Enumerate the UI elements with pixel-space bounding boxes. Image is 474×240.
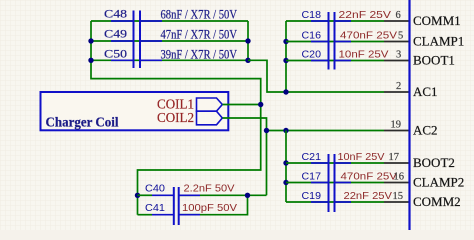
capacitor C50 <box>104 48 237 62</box>
node C40/C41 right junction <box>245 193 250 198</box>
capacitor C17 <box>302 171 398 183</box>
svg-text:C40: C40 <box>145 183 165 195</box>
wire: top bank right rail <box>247 21 249 60</box>
capacitor C41 <box>145 202 237 215</box>
capacitor C40 <box>145 183 235 196</box>
svg-text:100pF 50V: 100pF 50V <box>182 202 237 214</box>
wire: C50 row <box>91 59 248 61</box>
svg-text:2.2nF 50V: 2.2nF 50V <box>184 183 235 195</box>
node junction C49 right <box>245 38 250 43</box>
svg-text:COMM2: COMM2 <box>413 194 461 209</box>
capacitor plates C40/C41 <box>173 187 175 225</box>
svg-text:19: 19 <box>391 120 402 131</box>
svg-text:3: 3 <box>396 50 401 61</box>
pin 15 COMM2 <box>384 191 409 202</box>
wire: C17 row <box>286 182 384 184</box>
svg-text:AC2: AC2 <box>413 123 438 138</box>
svg-text:COIL2: COIL2 <box>157 110 194 125</box>
capacitor C18 <box>302 9 392 21</box>
svg-text:470nF 25V: 470nF 25V <box>340 30 397 42</box>
node junction C16 left <box>283 39 288 44</box>
sheet entry COIL1 <box>157 97 222 112</box>
sheet entry COIL2 <box>157 110 222 125</box>
pin 3 BOOT1 <box>384 50 409 61</box>
wire: C40 row right to AC2 vertical <box>179 194 267 196</box>
node AC2 rail junction <box>283 128 288 133</box>
wire: C21 row <box>286 162 384 164</box>
svg-text:470nF 25V: 470nF 25V <box>341 171 398 183</box>
node junction C50 right <box>245 58 250 63</box>
wire: C16 row <box>286 41 384 43</box>
pin 5 CLAMP1 <box>384 31 409 42</box>
connector U? left edge <box>408 0 410 230</box>
svg-text:C16: C16 <box>302 30 322 42</box>
node AC1 rail junction <box>283 89 288 94</box>
capacitor C48 <box>104 8 237 22</box>
svg-text:16: 16 <box>394 172 405 183</box>
svg-text:47nF / X7R / 50V: 47nF / X7R / 50V <box>161 28 238 42</box>
node junction C21 left <box>283 160 288 165</box>
pin 2 AC1 <box>384 81 409 92</box>
svg-text:C21: C21 <box>302 151 322 163</box>
wire: right bank left rail (AC1) <box>285 21 287 92</box>
capacitor C20 <box>302 49 389 61</box>
capacitor plates C18/C16/C20 <box>328 12 330 70</box>
svg-text:17: 17 <box>389 152 400 163</box>
pin 19 AC2 <box>384 120 409 131</box>
svg-text:CLAMP1: CLAMP1 <box>413 34 464 49</box>
wire: AC1 net jog from C50 row to pin 2 <box>248 60 384 92</box>
svg-text:C48: C48 <box>104 9 127 21</box>
svg-text:10nF 25V: 10nF 25V <box>339 49 389 61</box>
capacitor C21 <box>302 151 385 163</box>
wire: C49 row <box>91 40 248 42</box>
svg-text:C17: C17 <box>302 171 322 183</box>
svg-text:22nF 25V: 22nF 25V <box>339 9 392 21</box>
capacitor plates C21/C17/C19 <box>328 154 330 212</box>
wire: C40 row left <box>138 194 153 196</box>
svg-text:BOOT1: BOOT1 <box>413 53 455 68</box>
node junction C49 left <box>88 38 93 43</box>
svg-text:6: 6 <box>396 10 401 21</box>
svg-text:AC1: AC1 <box>413 84 438 99</box>
sheet symbol Charger Coil <box>41 92 229 130</box>
capacitor C19 <box>302 190 393 202</box>
capacitor C49 <box>104 28 237 42</box>
svg-text:C41: C41 <box>145 202 165 214</box>
wire: C41 row right branch up to C40 row <box>179 195 248 214</box>
svg-text:C18: C18 <box>302 9 322 21</box>
node junction C17 left <box>283 180 288 185</box>
pin 17 BOOT2 <box>384 152 409 163</box>
svg-text:5: 5 <box>398 31 403 42</box>
svg-text:Charger Coil: Charger Coil <box>46 115 119 130</box>
svg-text:22nF 25V: 22nF 25V <box>344 190 393 202</box>
svg-text:C20: C20 <box>302 49 322 61</box>
svg-text:CLAMP2: CLAMP2 <box>413 175 464 190</box>
wire: C20 row <box>286 60 384 62</box>
wire: C41 row left <box>138 214 153 216</box>
pin 16 CLAMP2 <box>384 172 409 183</box>
node junction C20 left <box>283 58 288 63</box>
svg-text:BOOT2: BOOT2 <box>413 155 455 170</box>
svg-text:C19: C19 <box>302 190 322 202</box>
svg-text:15: 15 <box>393 191 404 202</box>
wire: AC2 row <box>267 130 385 132</box>
node COIL1 junction <box>258 102 263 107</box>
wire: C19 row <box>286 201 384 203</box>
wire: bottom-right bank left rail (AC2) <box>285 131 287 203</box>
pin 6 COMM1 <box>384 10 409 21</box>
node AC2 / COIL2 junction <box>264 128 269 133</box>
node C40 left junction <box>135 193 140 198</box>
capacitor C16 <box>302 30 398 42</box>
svg-text:2: 2 <box>396 81 401 92</box>
wire: COIL1 to left rail <box>223 104 261 106</box>
wire: C18 row <box>286 20 384 22</box>
svg-text:68nF / X7R / 50V: 68nF / X7R / 50V <box>161 8 238 22</box>
svg-text:C50: C50 <box>104 49 127 61</box>
node junction C50 left <box>88 58 93 63</box>
capacitor plates C48-C50 <box>133 11 135 69</box>
svg-text:COMM1: COMM1 <box>413 13 461 28</box>
svg-text:C49: C49 <box>104 29 127 41</box>
svg-text:10nF 25V: 10nF 25V <box>338 151 385 163</box>
wire: C48 row <box>91 20 248 22</box>
svg-text:39nF / X7R / 50V: 39nF / X7R / 50V <box>161 48 238 62</box>
wire: top-left bank left rail / COIL1 net <box>91 21 261 215</box>
wire: COIL2 to AC2 <box>223 118 267 195</box>
